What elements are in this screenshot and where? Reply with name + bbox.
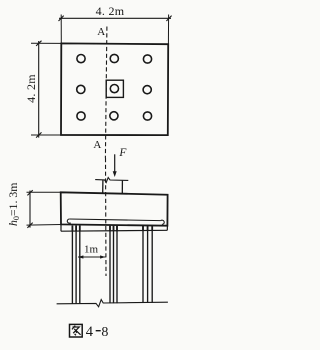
svg-text:A: A [93,139,101,151]
pile cap plan outline [61,43,168,135]
column box around center pile [106,80,123,97]
pile P5 center plan circle [110,85,118,93]
rebar with end hooks in cap [67,219,164,224]
node figure caption 图4-8 [70,324,83,337]
wire section centerline A-A dashed [105,27,107,159]
pile 1 elevation [72,226,79,304]
pile P4 plan circle [77,85,85,93]
cushion layer under cap [61,224,167,231]
wire 1m dimension [78,255,106,258]
svg-text:8: 8 [101,325,108,340]
ground break line with zigzag [57,300,168,307]
svg-text:1m: 1m [84,244,99,256]
pile embedment hatch strokes [72,226,152,232]
h0 dimension line [27,190,62,228]
pile P6 plan circle [143,86,151,94]
svg-text:4. 2m: 4. 2m [96,4,125,18]
pile P7 plan circle [77,112,85,120]
pile P8 plan circle [110,112,118,120]
pile P1 plan circle [77,55,85,63]
pile P2 plan circle [110,54,118,62]
column break line with notch [95,178,128,183]
wire left dimension line 4.2m [31,41,61,138]
svg-text:h0=1. 3m: h0=1. 3m [6,183,21,226]
svg-text:F: F [118,147,127,159]
wire top dimension line 4.2m [59,15,172,45]
svg-text:4. 2m: 4. 2m [24,74,38,103]
column right side [121,181,123,195]
pile 3 elevation [143,226,152,303]
svg-text:4: 4 [86,324,94,340]
pile cap elevation outline [61,192,168,225]
pile 2 elevation [110,226,117,303]
pile P3 plan circle [143,55,151,63]
force F arrow [113,154,117,177]
column left side [102,180,104,193]
pile P9 plan circle [143,112,151,120]
svg-text:A: A [97,26,105,38]
